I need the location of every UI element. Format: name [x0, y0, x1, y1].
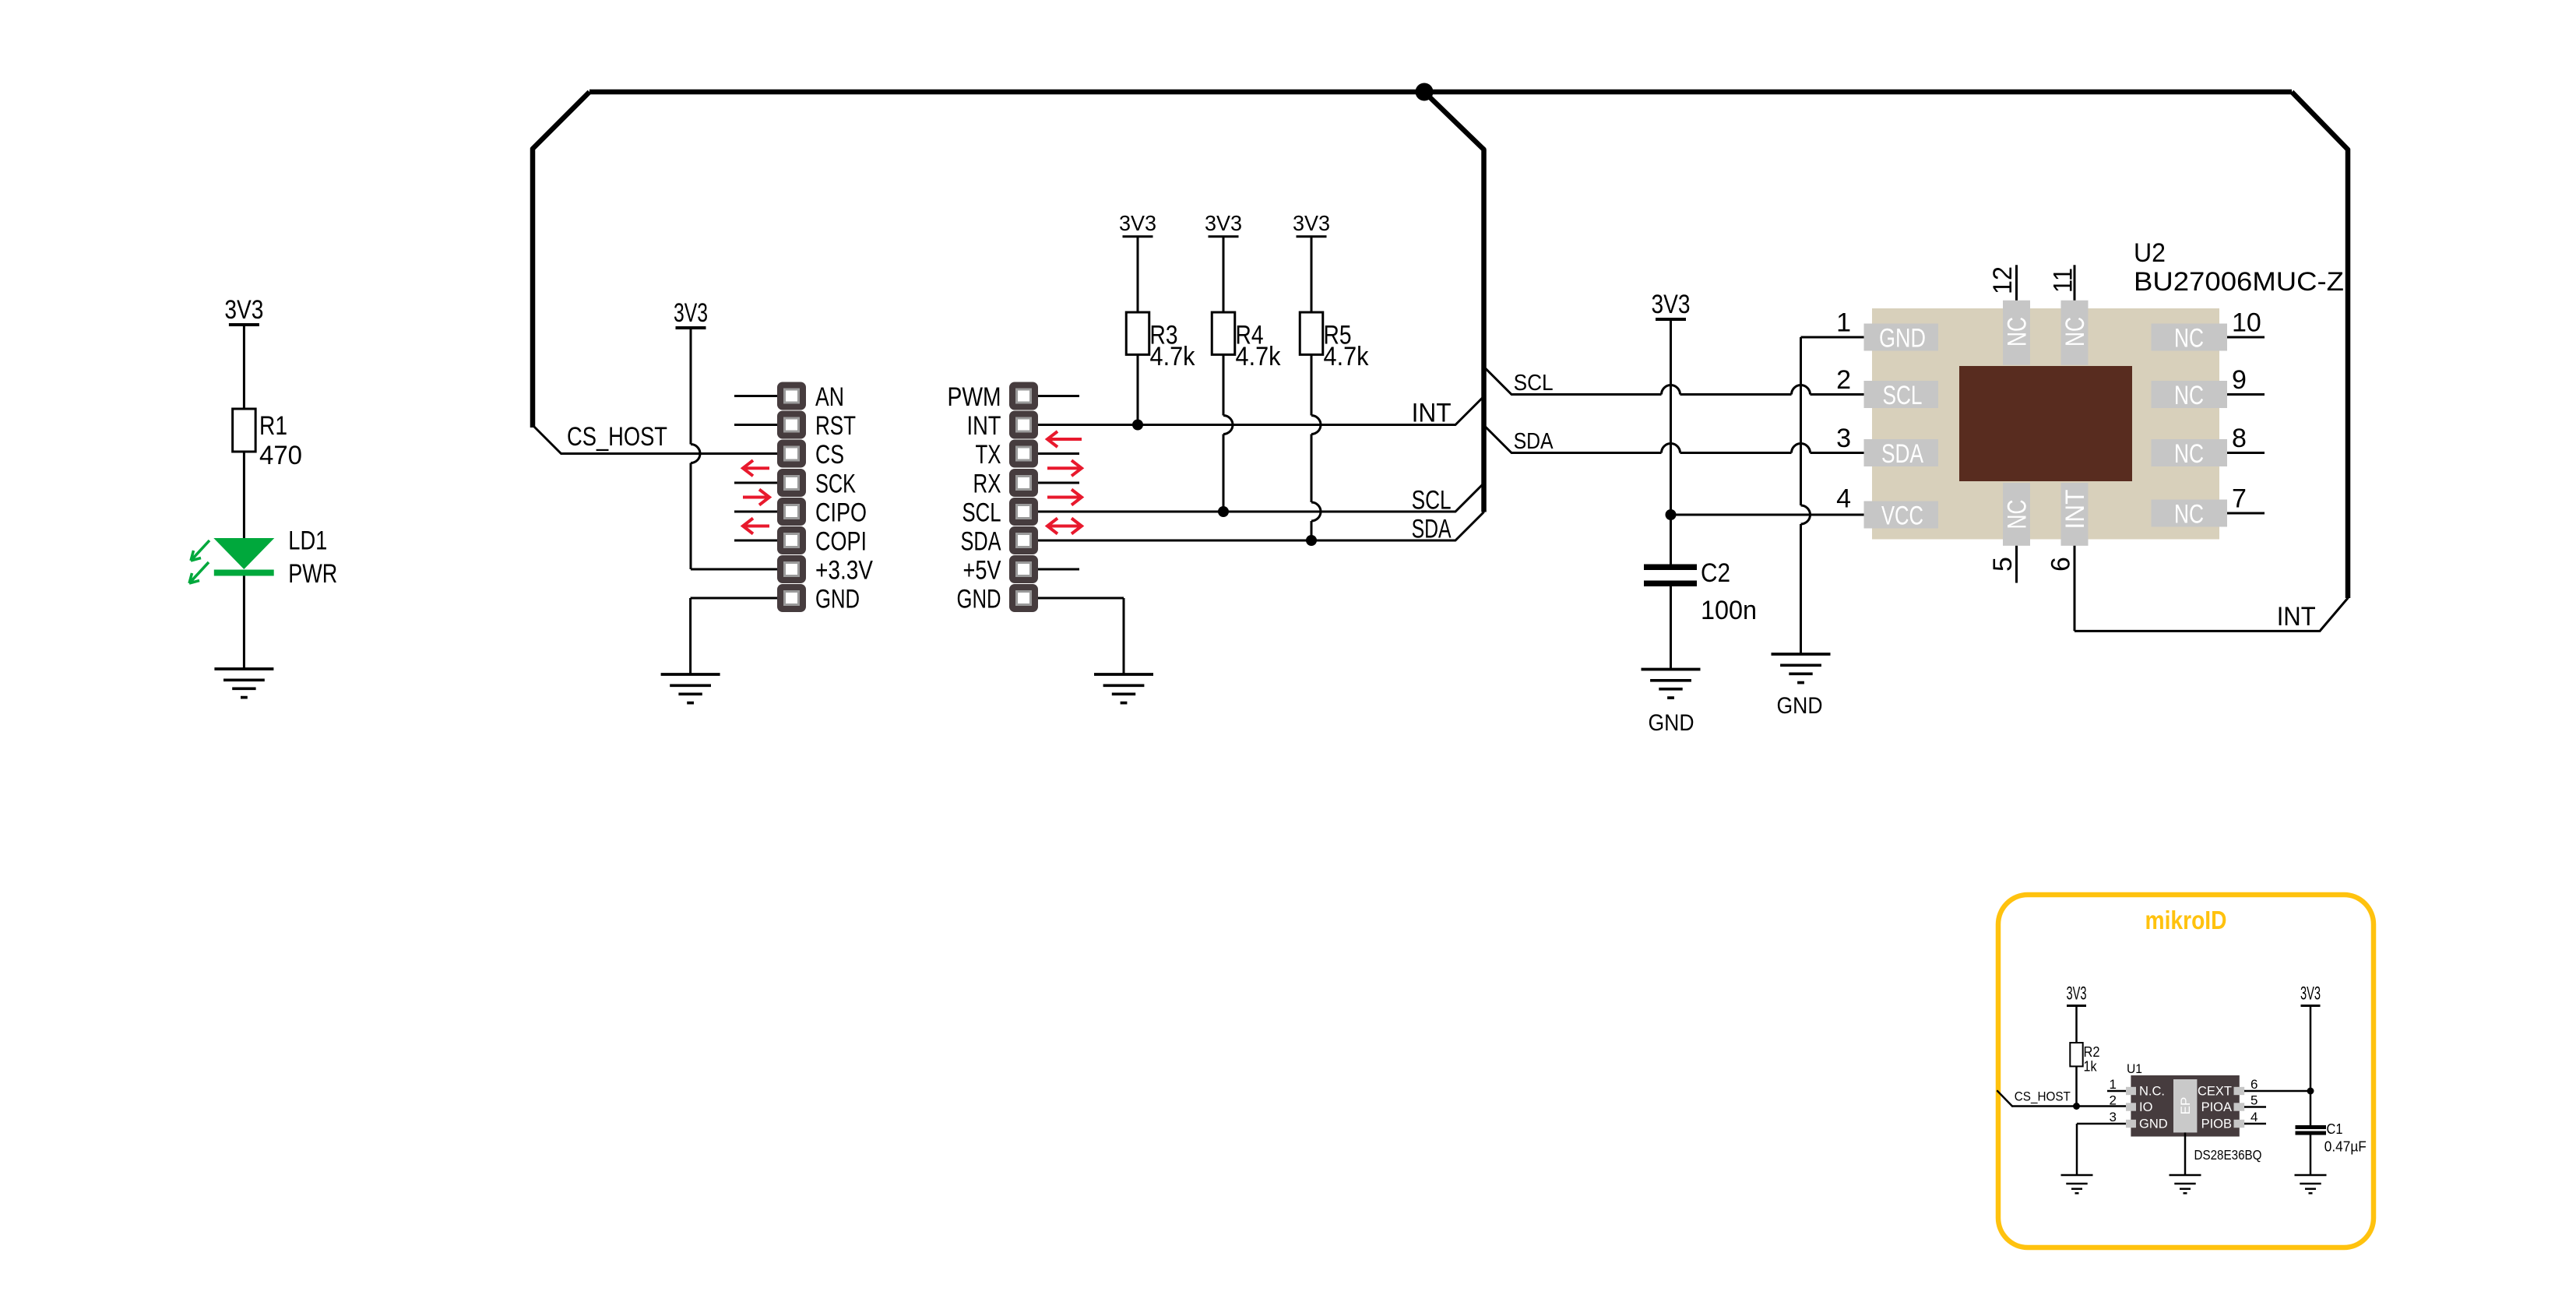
ground (LED branch) — [214, 667, 273, 670]
ground (C1) — [2295, 1174, 2327, 1177]
ground (U1 GND) — [2061, 1174, 2093, 1177]
svg-text:8: 8 — [2232, 424, 2247, 453]
junction CEXT/3V3 — [2307, 1088, 2314, 1095]
wire CS_HOST to CS pin (3V3 vertical hops it) — [561, 452, 778, 455]
wire SDA (J2 SDA pin to bus) — [1038, 540, 1455, 542]
svg-text:5: 5 — [2250, 1093, 2258, 1108]
svg-text:4: 4 — [1836, 484, 1851, 514]
U2 pin 7 NC — [2152, 500, 2228, 527]
svg-text:2: 2 — [2110, 1093, 2117, 1108]
svg-text:7: 7 — [2232, 484, 2247, 514]
svg-text:470: 470 — [259, 441, 302, 470]
svg-text:INT: INT — [1412, 399, 1452, 428]
wire R1 to LD1 — [243, 452, 245, 539]
wire VCC line to U2 pin 4 — [1671, 514, 1864, 516]
svg-text:3V3: 3V3 — [1205, 211, 1242, 235]
U2 pin 3 SDA — [1864, 439, 1939, 466]
wire LD1 to ground — [243, 576, 245, 670]
svg-text:INT: INT — [2060, 490, 2090, 530]
svg-text:100n: 100n — [1701, 596, 1757, 625]
wire C2 to ground — [1670, 586, 1672, 670]
svg-text:+5V: +5V — [963, 556, 1001, 586]
U1 pin 4 PIOB — [2234, 1120, 2245, 1128]
junction R2/CS_HOST — [2073, 1103, 2080, 1110]
header J1 direction arrows — [745, 466, 769, 470]
svg-text:INT: INT — [967, 411, 1001, 441]
junction 3V3/VCC — [1666, 509, 1677, 520]
svg-text:2: 2 — [1836, 365, 1851, 395]
U1 pin 4 stub — [2244, 1123, 2266, 1125]
svg-text:LD1: LD1 — [288, 526, 327, 556]
U2 pin 2 SCL — [1864, 381, 1939, 408]
svg-text:10: 10 — [2232, 308, 2261, 338]
svg-text:4.7k: 4.7k — [1150, 342, 1196, 371]
svg-text:3V3: 3V3 — [1293, 211, 1330, 235]
wire 3V3 to R2 — [2075, 1007, 2078, 1043]
svg-text:4: 4 — [2250, 1110, 2258, 1124]
U2 pin 4 VCC — [1864, 501, 1939, 529]
svg-text:SCL: SCL — [962, 498, 1001, 528]
svg-text:6: 6 — [2046, 557, 2076, 572]
wire diagonal bus to CS_HOST — [533, 425, 561, 454]
svg-text:PWR: PWR — [288, 559, 337, 589]
svg-text:U1: U1 — [2127, 1061, 2142, 1076]
U2 pin 5 NC — [2003, 483, 2030, 546]
svg-text:VCC: VCC — [1881, 501, 1923, 531]
svg-text:GND: GND — [1777, 693, 1823, 719]
svg-text:1: 1 — [1836, 308, 1851, 338]
svg-text:NC: NC — [2060, 317, 2090, 347]
bus junction — [1416, 83, 1434, 101]
svg-text:GND: GND — [815, 585, 860, 614]
resistor R5 — [1300, 312, 1323, 354]
U2 pin 1 GND — [1864, 324, 1939, 351]
header J2 pin stubs — [1038, 395, 1079, 397]
svg-text:CS_HOST: CS_HOST — [2015, 1090, 2071, 1104]
svg-text:PWM: PWM — [948, 382, 1001, 412]
svg-text:IO: IO — [2139, 1100, 2153, 1114]
mikroID group box — [1998, 895, 2374, 1247]
U1 pin 1 stub — [2107, 1090, 2126, 1093]
header J2 pin squares — [1009, 382, 1038, 410]
wire J2 GND to ground — [1038, 597, 1124, 600]
svg-text:GND: GND — [2139, 1117, 2168, 1131]
svg-text:EP: EP — [2178, 1097, 2193, 1115]
ground (C2) — [1642, 668, 1701, 671]
wire 3V3 to R5 — [1311, 238, 1313, 312]
header J2 direction arrows — [1050, 438, 1082, 441]
junction R5/SDA — [1306, 535, 1317, 546]
svg-text:NC: NC — [2174, 500, 2204, 530]
wire R4 to SCL net (hops INT) — [1223, 354, 1225, 415]
svg-text:C2: C2 — [1701, 558, 1730, 588]
capacitor C1 — [2296, 1125, 2327, 1129]
U1 pin 3 GND — [2126, 1120, 2136, 1128]
svg-text:3V3: 3V3 — [224, 295, 263, 325]
wire 3V3 to R4 — [1223, 238, 1225, 312]
svg-text:1: 1 — [2110, 1077, 2117, 1092]
svg-text:+3.3V: +3.3V — [815, 556, 873, 586]
svg-text:4.7k: 4.7k — [1324, 342, 1370, 371]
wire SDA (bus to U2 pin 3) — [1484, 426, 1511, 453]
wire U1 pin3 GND to ground — [2077, 1123, 2126, 1125]
bus wire: left vertical and top diagonal — [533, 92, 589, 428]
svg-text:TX: TX — [976, 440, 1001, 470]
U2 pin 12 NC — [2003, 301, 2030, 365]
header J1 pin squares — [777, 382, 806, 410]
svg-text:SCL: SCL — [1883, 381, 1923, 410]
resistor R4 — [1212, 312, 1235, 354]
wire EP to ground — [2184, 1132, 2187, 1175]
svg-text:CS_HOST: CS_HOST — [567, 422, 667, 452]
svg-text:R2: R2 — [2084, 1044, 2100, 1060]
bus wire: right drop — [2292, 92, 2348, 598]
svg-text:R1: R1 — [259, 411, 287, 441]
chip U1 body — [2131, 1075, 2239, 1137]
wire 3V3 to R3 — [1137, 238, 1139, 312]
U2 pin 8 NC — [2152, 439, 2228, 466]
wire J1 GND to ground — [691, 597, 777, 600]
svg-text:RX: RX — [973, 470, 1001, 499]
svg-text:11: 11 — [2049, 268, 2078, 293]
junction R4/SCL — [1218, 506, 1229, 517]
svg-text:3V3: 3V3 — [1652, 290, 1691, 319]
svg-text:SCL: SCL — [1412, 486, 1452, 516]
bus wire: top horizontal — [589, 90, 2292, 95]
svg-text:3V3: 3V3 — [674, 298, 708, 328]
svg-text:U2: U2 — [2134, 238, 2166, 268]
U2 pin 11 NC — [2061, 301, 2089, 365]
U1 pin 5 PIOA — [2234, 1103, 2245, 1110]
ground (U2) — [1772, 653, 1831, 656]
wire C1 to ground — [2310, 1135, 2312, 1176]
wire 3V3 down to +3.3V pin (hops CS_HOST wire) — [690, 329, 692, 445]
svg-text:PIOA: PIOA — [2201, 1100, 2232, 1114]
resistor R1 — [233, 409, 256, 452]
svg-text:5: 5 — [1988, 557, 2018, 572]
U2 pin 6 INT — [2061, 483, 2089, 546]
wire SCL (bus to U2 pin 2) — [1484, 368, 1511, 395]
wire U1 pin6 CEXT to C1 — [2244, 1090, 2310, 1093]
wire INT (U2 pin 6 to bus) — [2074, 546, 2076, 632]
header J1 pin stubs — [734, 395, 777, 397]
svg-text:12: 12 — [1988, 266, 2018, 294]
svg-text:BU27006MUC-Z: BU27006MUC-Z — [2134, 267, 2344, 297]
svg-text:SCL: SCL — [1514, 371, 1554, 396]
wire R5 to SDA net (hops INT, SCL) — [1311, 354, 1313, 415]
junction R3/INT — [1132, 420, 1143, 431]
svg-text:mikroID: mikroID — [2145, 906, 2227, 934]
ground (right header) — [1094, 673, 1153, 676]
svg-text:3: 3 — [2110, 1110, 2117, 1124]
svg-text:6: 6 — [2250, 1077, 2258, 1092]
svg-text:RST: RST — [815, 411, 856, 441]
bus wire: middle drop (net taps) — [1424, 92, 1484, 512]
U1 pin 6 CEXT — [2234, 1087, 2245, 1095]
wire 3V3 to C1 — [2310, 1007, 2312, 1125]
ground (left header) — [661, 673, 720, 676]
svg-text:3V3: 3V3 — [2300, 984, 2321, 1005]
wire junction to C2 — [1670, 515, 1672, 565]
svg-text:SDA: SDA — [1412, 515, 1452, 544]
U1 pin 2 IO — [2126, 1103, 2136, 1110]
svg-text:NC: NC — [2174, 439, 2204, 469]
svg-text:NC: NC — [2003, 500, 2032, 530]
svg-text:INT: INT — [2277, 602, 2316, 632]
svg-text:NC: NC — [2174, 324, 2204, 354]
svg-text:PIOB: PIOB — [2201, 1117, 2232, 1131]
resistor R2 — [2070, 1043, 2082, 1066]
svg-text:NC: NC — [2003, 317, 2032, 347]
svg-text:9: 9 — [2232, 365, 2247, 395]
wire R2 to CS_HOST — [2075, 1066, 2078, 1106]
svg-text:4.7k: 4.7k — [1236, 342, 1282, 371]
svg-text:3V3: 3V3 — [2067, 984, 2087, 1005]
svg-text:GND: GND — [1879, 324, 1926, 354]
svg-text:C1: C1 — [2327, 1121, 2343, 1137]
net entry CS_HOST — [1997, 1091, 2012, 1107]
svg-text:N.C.: N.C. — [2139, 1085, 2165, 1099]
svg-text:1k: 1k — [2084, 1059, 2098, 1075]
svg-text:SDA: SDA — [1881, 439, 1923, 469]
wire R3 to INT net — [1137, 354, 1139, 424]
svg-text:COPI: COPI — [815, 527, 867, 557]
wire 3V3 to R1 — [243, 326, 245, 409]
wire 3V3 down to VCC line — [1670, 321, 1672, 515]
svg-text:GND: GND — [1649, 710, 1694, 736]
svg-text:SCK: SCK — [815, 470, 856, 499]
svg-text:AN: AN — [815, 382, 844, 412]
svg-text:CEXT: CEXT — [2198, 1085, 2232, 1099]
svg-text:CIPO: CIPO — [815, 498, 867, 528]
svg-text:GND: GND — [957, 585, 1001, 614]
capacitor C2 — [1644, 564, 1697, 570]
svg-text:3: 3 — [1836, 424, 1851, 453]
LED LD1 — [213, 538, 274, 569]
op chip U2 body — [1872, 308, 2219, 540]
wire INT (J2 INT pin to bus) — [1038, 424, 1455, 426]
U1 pin 5 stub — [2244, 1106, 2266, 1108]
U2 pin 9 NC — [2152, 381, 2228, 408]
ground (EP) — [2170, 1174, 2201, 1177]
resistor R3 — [1126, 312, 1149, 354]
svg-text:DS28E36BQ: DS28E36BQ — [2194, 1147, 2262, 1163]
wire SCL (J2 SCL pin to bus) — [1038, 511, 1455, 513]
svg-text:SDA: SDA — [1514, 429, 1554, 454]
svg-text:3V3: 3V3 — [1119, 211, 1156, 235]
U2 pin 10 NC — [2152, 324, 2228, 351]
U1 pin 1 N.C. — [2126, 1087, 2136, 1095]
svg-text:CS: CS — [815, 440, 844, 470]
svg-text:SDA: SDA — [961, 527, 1001, 557]
svg-text:NC: NC — [2174, 381, 2204, 410]
svg-text:0.47µF: 0.47µF — [2324, 1139, 2367, 1155]
wire U2 pin1 GND to ground (hops VCC) — [1801, 336, 1864, 339]
